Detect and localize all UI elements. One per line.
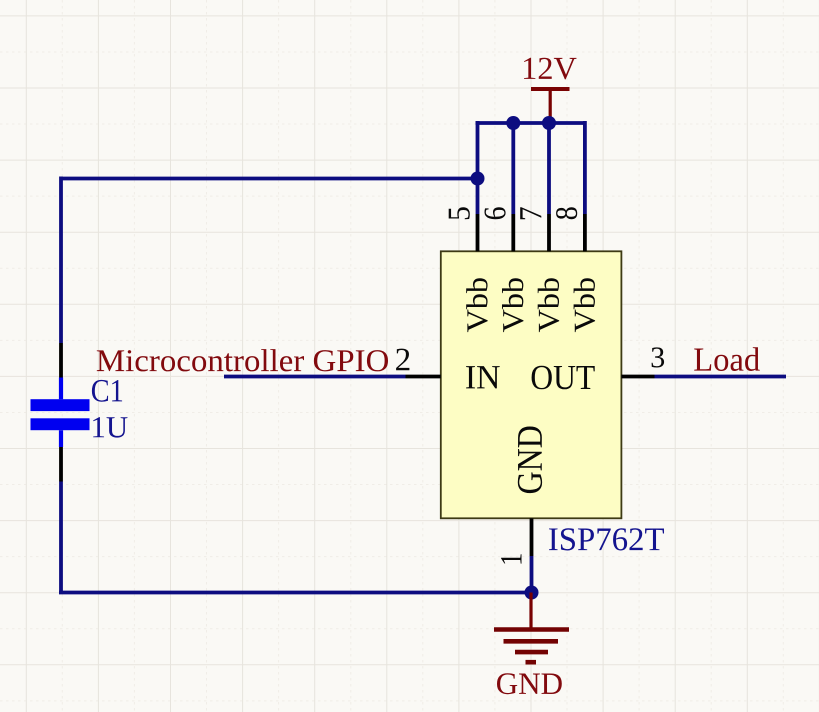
pin name Vbb pin7 xyxy=(538,278,560,332)
pin 6 stub xyxy=(511,214,515,251)
junction bus/pin7 12V stem xyxy=(542,116,556,130)
wire pin5 vertical xyxy=(476,121,480,214)
pin number 7 xyxy=(520,207,541,219)
pin name Vbb pin6 xyxy=(502,278,524,332)
pin 2 stub xyxy=(406,375,441,379)
power port 12V xyxy=(524,58,576,122)
pin name IN xyxy=(466,366,500,388)
pin 1 stub xyxy=(530,518,534,556)
wire pin7 vertical xyxy=(547,123,551,214)
capacitor C1 xyxy=(31,378,90,448)
net label Load xyxy=(694,347,760,371)
pin number 2 xyxy=(396,349,409,371)
pin name Vbb pin5 xyxy=(466,278,488,332)
wire Vbb bus horizontal xyxy=(476,121,585,125)
pin 7 stub xyxy=(547,214,551,251)
junction bottom / ground xyxy=(525,586,539,600)
wire pin1 to ground junction xyxy=(530,556,534,593)
wire pin6 vertical xyxy=(511,123,515,214)
pin number 1 xyxy=(501,554,521,563)
part number ISP762T xyxy=(549,528,664,550)
pin number 5 xyxy=(449,207,470,219)
value 1U xyxy=(93,417,127,438)
pin number 3 xyxy=(652,347,664,367)
pin name Vbb pin8 xyxy=(574,278,596,332)
label C1 xyxy=(92,380,122,402)
capacitor C1 bottom pin xyxy=(59,447,63,482)
pin name GND xyxy=(518,427,542,494)
pin 3 stub xyxy=(621,375,654,379)
wire bottom horizontal xyxy=(59,591,532,595)
pin number 6 xyxy=(484,207,505,219)
pin 5 stub xyxy=(476,214,480,251)
junction bus/pin6 xyxy=(506,116,520,130)
wire left vertical lower xyxy=(59,482,63,593)
net label Microcontroller GPIO xyxy=(97,349,388,371)
wire GPIO net xyxy=(224,375,406,379)
wire Load net xyxy=(655,375,787,379)
IC U1 ISP762T body xyxy=(441,251,622,518)
pin number 8 xyxy=(556,207,577,219)
wire top horizontal C1 to pin5 xyxy=(61,177,478,181)
junction top wire / pin5 wire xyxy=(471,172,485,186)
pin 8 stub xyxy=(583,214,587,251)
wire left vertical upper xyxy=(59,177,63,344)
capacitor C1 top pin xyxy=(59,343,63,378)
ground symbol GND xyxy=(494,593,569,695)
pin name OUT xyxy=(532,366,595,390)
wire pin8 vertical xyxy=(583,121,587,214)
